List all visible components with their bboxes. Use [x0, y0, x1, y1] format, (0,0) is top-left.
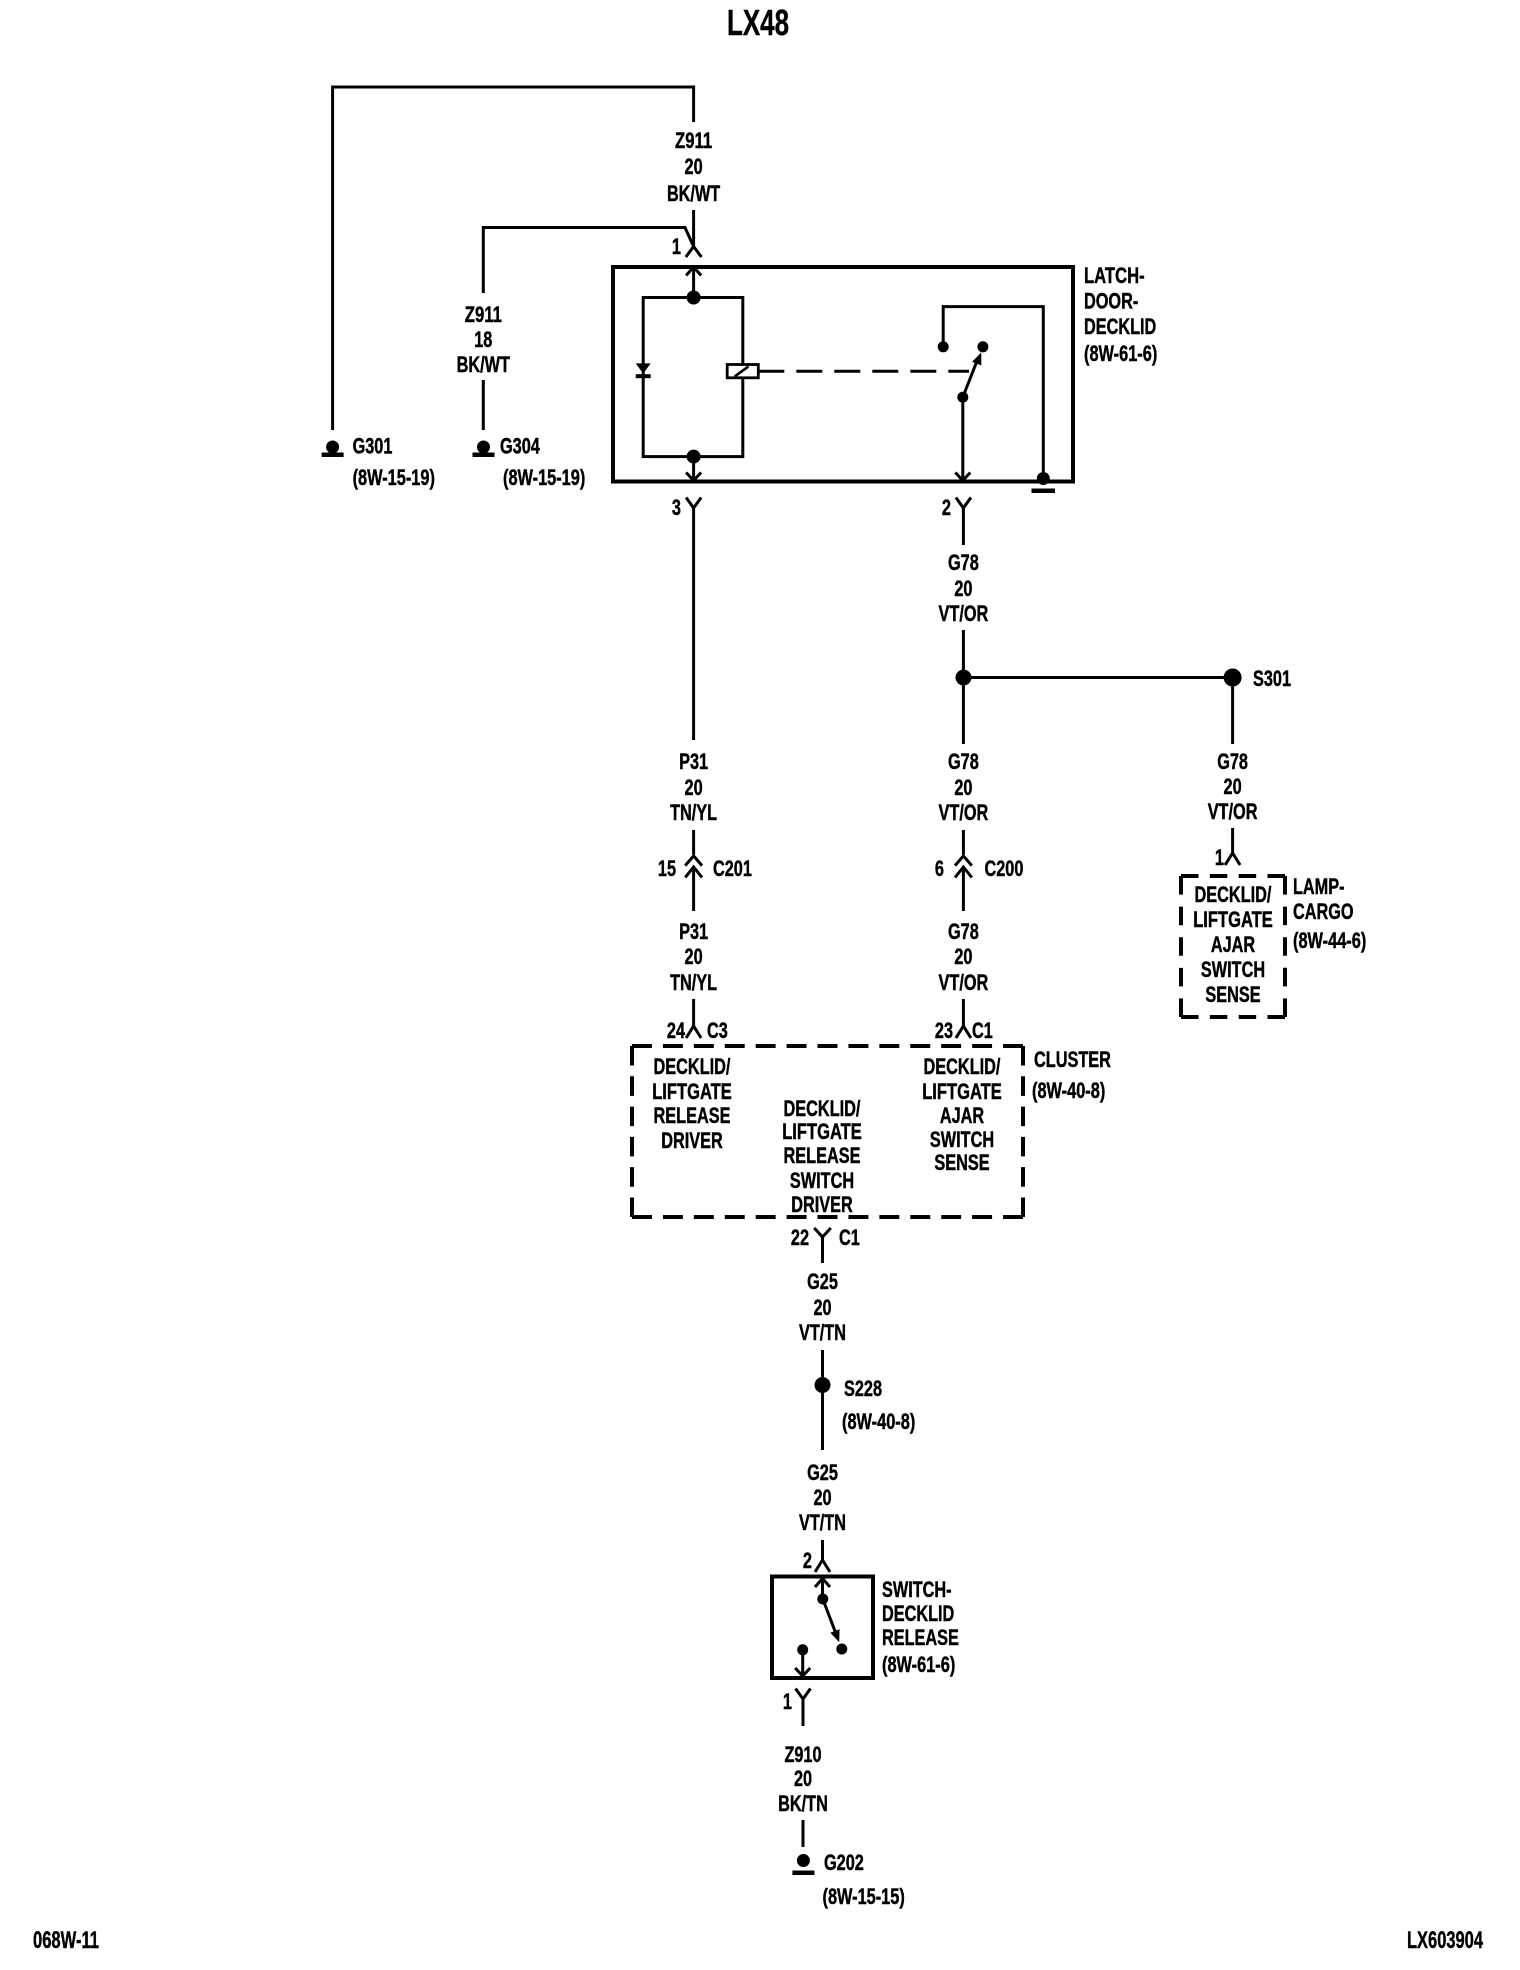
svg-text:LIFTGATE: LIFTGATE	[922, 1079, 1002, 1104]
connector: cluster pin 23 fork C1	[956, 999, 971, 1038]
svg-text:TN/YL: TN/YL	[670, 970, 717, 995]
wire G78 into connector C200	[962, 830, 965, 855]
diode CR1 (clamp diode, cathode up)	[636, 363, 651, 378]
relay coil / diode parallel loop wire	[643, 298, 743, 457]
svg-text:LAMP-: LAMP-	[1293, 874, 1345, 899]
svg-text:C1: C1	[839, 1225, 860, 1250]
cluster box U2 (dashed)	[632, 1046, 1023, 1217]
svg-text:20: 20	[685, 944, 703, 969]
label wire G78 20 VT/OR (lamp branch)	[1208, 749, 1258, 824]
svg-text:1: 1	[1215, 845, 1224, 870]
label wire G78 20 VT/OR (3)	[939, 919, 989, 995]
svg-text:S228: S228	[844, 1376, 882, 1401]
wire Z911 20 BK/WT: from ground G301 up and across to latch pin 1	[333, 87, 694, 430]
switch moving contact dot	[817, 1594, 828, 1605]
wire Z910 to ground G202	[802, 1820, 805, 1847]
label wire Z911 20 BK/WT	[667, 128, 721, 206]
svg-text:C200: C200	[985, 856, 1024, 881]
label LATCH-DOOR-DECKLID (8W-61-6)	[1084, 263, 1157, 366]
in-line connector C201 (cavity 15)	[685, 856, 702, 911]
svg-text:DECKLID/: DECKLID/	[1195, 882, 1272, 907]
svg-text:VT/OR: VT/OR	[939, 970, 989, 995]
wire G78 from latch pin 2	[962, 515, 965, 546]
svg-text:RELEASE: RELEASE	[784, 1143, 861, 1168]
svg-text:G25: G25	[807, 1460, 838, 1485]
svg-text:AJAR: AJAR	[1211, 932, 1255, 957]
relay contact pivot dot	[957, 392, 968, 403]
relay switch blade with arrowhead	[963, 353, 982, 398]
svg-text:CARGO: CARGO	[1293, 899, 1354, 924]
ground G202	[792, 1854, 814, 1875]
svg-text:LATCH-: LATCH-	[1084, 263, 1145, 288]
svg-text:SENSE: SENSE	[1205, 982, 1260, 1007]
svg-text:G202: G202	[824, 1850, 864, 1875]
svg-text:DECKLID: DECKLID	[1084, 314, 1156, 339]
svg-text:20: 20	[954, 944, 972, 969]
in-line connector C200 (cavity 6)	[955, 856, 972, 911]
svg-text:DECKLID/: DECKLID/	[784, 1096, 861, 1121]
connector: cluster pin 22 fork C1 (bottom)	[814, 1228, 831, 1263]
svg-text:DRIVER: DRIVER	[791, 1192, 853, 1217]
wire Z911 18 BK/WT: branch from ground G304 joining at latch pin 1	[483, 228, 693, 294]
svg-text:LIFTGATE: LIFTGATE	[1193, 907, 1273, 932]
label wire G78 20 VT/OR (1)	[939, 550, 989, 626]
svg-text:DRIVER: DRIVER	[661, 1128, 723, 1153]
relay contact fixed dot	[938, 341, 949, 352]
node: splice junction on G78	[956, 670, 972, 686]
svg-text:(8W-15-19): (8W-15-19)	[503, 465, 585, 490]
svg-text:RELEASE: RELEASE	[882, 1625, 959, 1650]
connector: cluster pin 24 fork C3	[686, 999, 701, 1038]
switch pin 1 male arrow out of box	[795, 1650, 810, 1676]
svg-text:TN/YL: TN/YL	[670, 800, 717, 825]
svg-text:1: 1	[783, 1689, 792, 1714]
svg-text:SWITCH-: SWITCH-	[882, 1577, 952, 1602]
wire G78 to splice junction	[962, 630, 965, 678]
latch-door-decklid box U1	[613, 267, 1073, 482]
switch-decklid-release box S1	[772, 1577, 873, 1679]
svg-text:18: 18	[474, 327, 492, 352]
connector: switch pin 1 female fork	[796, 1689, 811, 1727]
svg-text:VT/OR: VT/OR	[939, 601, 989, 626]
svg-text:BK/WT: BK/WT	[457, 352, 511, 377]
label CLUSTER (8W-40-8)	[1032, 1047, 1111, 1103]
svg-text:P31: P31	[679, 749, 708, 774]
relay actuation dashed link	[758, 370, 969, 373]
wire Z911 20 BK/WT lower segment into latch pin 1	[692, 210, 695, 247]
connector: switch pin 2 female fork	[815, 1548, 830, 1572]
svg-text:Z911: Z911	[675, 128, 712, 153]
label SWITCH-DECKLID RELEASE (8W-61-6)	[882, 1577, 959, 1677]
svg-text:G78: G78	[1217, 749, 1248, 774]
svg-text:(8W-40-8): (8W-40-8)	[1032, 1078, 1105, 1103]
connector: latch pin 3 female fork	[686, 498, 701, 515]
svg-text:6: 6	[935, 856, 944, 881]
svg-text:BK/WT: BK/WT	[667, 181, 721, 206]
wire from junction to splice S301	[964, 676, 1233, 679]
wire P31 into connector C201	[692, 830, 695, 855]
svg-text:G301: G301	[353, 434, 393, 459]
svg-text:SWITCH: SWITCH	[790, 1168, 854, 1193]
label wire G25 20 VT/TN (lower)	[799, 1460, 846, 1535]
wire Z911 18 BK/WT lower segment to G304	[482, 380, 485, 430]
svg-text:RELEASE: RELEASE	[654, 1103, 731, 1128]
svg-text:2: 2	[942, 495, 951, 520]
svg-text:(8W-44-6): (8W-44-6)	[1293, 928, 1366, 953]
lamp-cargo box U3 (dashed)	[1181, 876, 1285, 1017]
svg-text:LX603904: LX603904	[1407, 1927, 1483, 1954]
switch throw contact dot	[836, 1644, 847, 1655]
svg-text:(8W-40-8): (8W-40-8)	[842, 1409, 915, 1434]
svg-text:DECKLID/: DECKLID/	[654, 1054, 731, 1079]
svg-text:G78: G78	[948, 749, 979, 774]
switch blade with arrowhead	[823, 1599, 840, 1642]
wire G25 below S228	[821, 1393, 824, 1450]
svg-text:SENSE: SENSE	[934, 1150, 989, 1175]
svg-text:20: 20	[685, 775, 703, 800]
label wire G78 20 VT/OR (2)	[939, 749, 989, 825]
cluster pin 24 function: DECKLID/LIFTGATE RELEASE DRIVER	[652, 1054, 732, 1153]
svg-text:VT/OR: VT/OR	[939, 800, 989, 825]
connector: latch pin 1 female fork	[686, 247, 702, 258]
svg-text:SWITCH: SWITCH	[930, 1127, 994, 1152]
svg-text:VT/TN: VT/TN	[799, 1510, 846, 1535]
svg-text:2: 2	[803, 1548, 812, 1573]
svg-text:Z910: Z910	[784, 1742, 821, 1767]
svg-text:15: 15	[658, 856, 676, 881]
connector: latch pin 2 female fork	[956, 498, 971, 515]
svg-text:(8W-15-19): (8W-15-19)	[353, 465, 435, 490]
svg-text:20: 20	[813, 1485, 831, 1510]
svg-text:(8W-61-6): (8W-61-6)	[1084, 341, 1157, 366]
svg-text:20: 20	[794, 1766, 812, 1791]
relay contact feed wire (pin 2 side to internal ground)	[943, 307, 1043, 476]
svg-text:LX48: LX48	[727, 2, 789, 43]
cluster pin 23 function: DECKLID/LIFTGATE AJAR SWITCH SENSE	[922, 1054, 1002, 1175]
svg-text:DECKLID: DECKLID	[882, 1601, 954, 1626]
ground G304	[473, 441, 495, 458]
svg-text:CLUSTER: CLUSTER	[1034, 1047, 1111, 1072]
connector: lamp pin 1 fork	[1225, 828, 1240, 865]
relay contact throw dot	[977, 341, 988, 352]
latch internal ground (case ground)	[1032, 472, 1056, 493]
svg-text:3: 3	[672, 495, 681, 520]
svg-text:BK/TN: BK/TN	[778, 1791, 828, 1816]
svg-text:C201: C201	[713, 856, 752, 881]
switch fixed contact dot	[797, 1644, 808, 1655]
svg-text:SWITCH: SWITCH	[1201, 957, 1265, 982]
wire G78 from splice S301 down	[1231, 687, 1234, 745]
relay coil K1	[727, 365, 758, 378]
wire G25 into switch pin 2	[821, 1540, 824, 1548]
label wire Z910 20 BK/TN	[778, 1742, 828, 1816]
wire G78 below junction	[962, 686, 965, 745]
cluster pin 22 function: DECKLID/LIFTGATE RELEASE SWITCH DRIVER	[782, 1096, 862, 1217]
svg-text:LIFTGATE: LIFTGATE	[782, 1119, 862, 1144]
ground G301	[322, 441, 344, 458]
svg-text:AJAR: AJAR	[940, 1103, 984, 1128]
svg-text:DECKLID/: DECKLID/	[924, 1054, 1001, 1079]
svg-text:20: 20	[1224, 774, 1242, 799]
label wire P31 20 TN/YL (lower)	[670, 919, 717, 995]
wire G25 to splice S228	[821, 1350, 824, 1377]
svg-text:068W-11: 068W-11	[33, 1927, 99, 1954]
svg-text:1: 1	[672, 234, 681, 259]
latch pin 2 male arrow out of box	[955, 397, 970, 480]
svg-text:DOOR-: DOOR-	[1084, 289, 1138, 314]
label wire Z911 18 BK/WT	[457, 302, 511, 377]
label wire P31 20 TN/YL (upper)	[670, 749, 717, 825]
svg-text:Z911: Z911	[465, 302, 502, 327]
svg-text:G25: G25	[807, 1269, 838, 1294]
node: relay coil top junction	[687, 291, 701, 305]
svg-text:20: 20	[813, 1295, 831, 1320]
svg-text:(8W-61-6): (8W-61-6)	[882, 1652, 955, 1677]
svg-text:20: 20	[954, 775, 972, 800]
lamp pin 1 function: DECKLID/LIFTGATE AJAR SWITCH SENSE	[1193, 882, 1273, 1007]
svg-text:23: 23	[935, 1018, 953, 1043]
svg-text:G304: G304	[500, 434, 540, 459]
svg-text:20: 20	[685, 154, 703, 179]
splice S301	[1224, 669, 1242, 687]
splice S228	[815, 1377, 831, 1393]
svg-text:(8W-15-15): (8W-15-15)	[823, 1884, 905, 1909]
svg-text:VT/TN: VT/TN	[799, 1320, 846, 1345]
svg-text:G78: G78	[948, 550, 979, 575]
wire P31 from latch pin 3	[692, 515, 695, 741]
latch pin 3 male arrow out of box	[686, 457, 701, 481]
svg-text:LIFTGATE: LIFTGATE	[652, 1079, 732, 1104]
latch pin 1 male arrow into box	[686, 267, 701, 298]
svg-text:C3: C3	[707, 1018, 728, 1043]
svg-text:G78: G78	[948, 919, 979, 944]
svg-text:20: 20	[954, 576, 972, 601]
svg-text:22: 22	[791, 1225, 809, 1250]
svg-text:P31: P31	[679, 919, 708, 944]
label LAMP-CARGO (8W-44-6)	[1293, 874, 1366, 953]
svg-text:S301: S301	[1253, 666, 1291, 691]
node: coil bottom junction	[687, 450, 701, 464]
label wire G25 20 VT/TN (upper)	[799, 1269, 846, 1345]
svg-text:VT/OR: VT/OR	[1208, 799, 1258, 824]
svg-text:C1: C1	[972, 1018, 993, 1043]
switch pin 2 male arrow into box	[815, 1579, 830, 1600]
svg-text:24: 24	[667, 1018, 686, 1043]
